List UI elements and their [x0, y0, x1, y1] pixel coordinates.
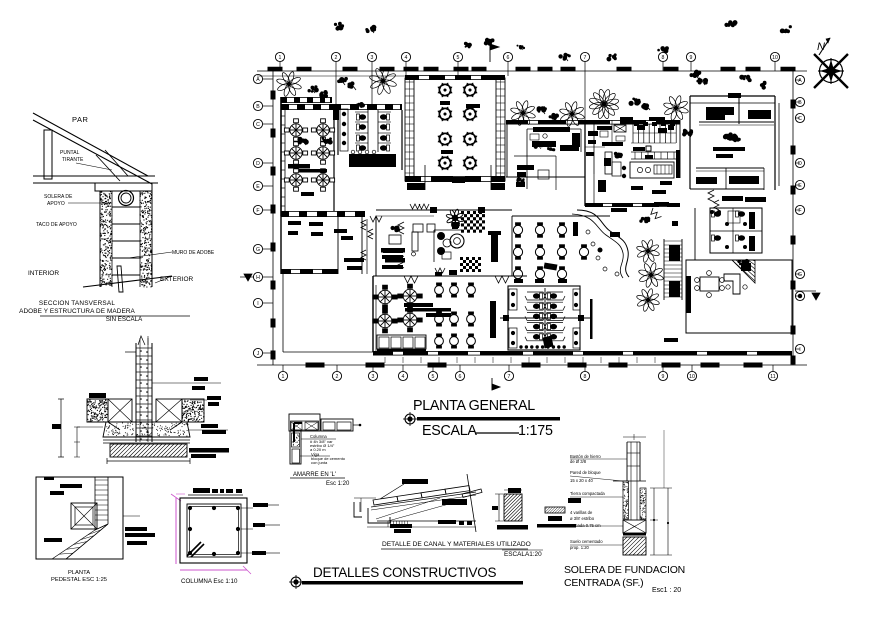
svg-text:11: 11 [770, 374, 775, 380]
pedestal top leader left [125, 351, 136, 353]
svg-text:3: 3 [371, 55, 374, 61]
svg-text:9: 9 [662, 374, 665, 380]
svg-text:C: C [256, 122, 260, 128]
columna inner square [187, 504, 241, 557]
pedestal base slab [103, 439, 190, 441]
columna outer square [180, 498, 247, 563]
svg-text:APOYO: APOYO [47, 201, 65, 207]
svg-text:5: 5 [432, 374, 435, 380]
svg-text:6: 6 [507, 55, 510, 61]
kitchen west lower office [514, 155, 556, 157]
property line right dashes [791, 100, 796, 109]
bathroom block B walls [337, 110, 339, 155]
svg-text:Suelo cementado: Suelo cementado [570, 539, 603, 544]
pedestal top-left label bars [89, 393, 106, 398]
svg-text:ESCALA: ESCALA [422, 423, 477, 439]
lounge top door W [410, 204, 420, 209]
svg-text:DETALLES CONSTRUCTIVOS: DETALLES CONSTRUCTIVOS [313, 565, 497, 580]
bathroom H side cells right [573, 289, 580, 310]
pedestal top leader right [152, 382, 221, 384]
main dining cross tables [373, 285, 397, 309]
canal black bars lower [390, 524, 412, 528]
solera wall hatched strips [623, 481, 629, 519]
svg-text:ø 3/8' estribo: ø 3/8' estribo [570, 516, 595, 521]
pedestal ground hatch left brick [105, 417, 106, 418]
svg-text:B: B [798, 100, 802, 106]
svg-text:10: 10 [772, 55, 778, 61]
svg-text:PLANTA: PLANTA [68, 570, 90, 576]
svg-text:PUNTAL: PUNTAL [60, 150, 80, 156]
planter wall ladder [663, 239, 665, 300]
svg-text:F: F [798, 208, 801, 214]
columna rebar dots [188, 506, 192, 510]
grid marker arrow right [812, 293, 820, 300]
canal right slope edge [467, 474, 476, 532]
corridor walls [361, 216, 363, 274]
canal right base line [537, 524, 576, 528]
bathroom H east wall [590, 299, 593, 339]
section detail: ground line [83, 276, 172, 287]
svg-text:G: G [798, 272, 802, 278]
section detail: top plate solera [95, 183, 152, 191]
reception checker floor lower [460, 257, 463, 260]
top-right room1 black mass [706, 107, 734, 115]
room A walls [281, 97, 332, 103]
bathroom H walls [508, 286, 580, 350]
planta pedestal top bars [60, 484, 82, 488]
property line left dashes [271, 91, 276, 100]
canal gutter channel [354, 502, 362, 517]
room C left wall hatched [405, 78, 414, 181]
svg-text:7: 7 [584, 55, 587, 61]
top-right hall plants [682, 129, 693, 137]
room C top wall [405, 75, 505, 80]
top-right lower rooms [696, 167, 764, 169]
svg-text:B: B [256, 104, 260, 110]
property line bottom [257, 364, 807, 366]
pedestal right leaders lower [190, 449, 228, 451]
solera bottom hatch [623, 537, 646, 555]
court plants top [510, 100, 536, 126]
pedestal footing concrete [103, 422, 190, 437]
bottom wall right segment [667, 351, 792, 356]
pedestal ground X panel left [108, 399, 132, 422]
canal section hatch block [504, 494, 522, 521]
pedestal right leaders middle [189, 429, 228, 431]
flag symbol top [489, 44, 491, 62]
title planta general underline bar [417, 417, 560, 421]
svg-text:TACO DE APOYO: TACO DE APOYO [36, 222, 77, 228]
planter flowers [636, 239, 660, 263]
service room walls below A [280, 216, 282, 274]
top-right block outer walls [690, 95, 775, 97]
kitchen west room walls [506, 120, 508, 177]
dining east black counter [490, 301, 496, 338]
room A tables [284, 119, 307, 141]
amarre top beam [289, 414, 320, 431]
svg-text:PLANTA GENERAL: PLANTA GENERAL [413, 398, 535, 414]
svg-text:I: I [257, 301, 258, 307]
columna magenta dims [175, 498, 177, 564]
pedestal ground hatch right brick [194, 411, 195, 412]
bathroom H sink dots [519, 345, 522, 348]
canal right wall piece hatch [545, 507, 565, 513]
lounge sofas [383, 249, 403, 253]
pedestal bottom hatch block [110, 444, 187, 457]
bathroom H side cells left [509, 289, 517, 310]
svg-text:A: A [256, 77, 260, 83]
office plant [738, 259, 750, 266]
reception column circle [450, 234, 464, 248]
main dining small tables [435, 283, 444, 297]
svg-text:1:175: 1:175 [518, 423, 553, 439]
pedestal bottom dim line [107, 460, 190, 462]
main dining top wall [373, 275, 527, 277]
kitchen door arcs [649, 208, 662, 221]
pedestal section column ladder [135, 343, 137, 442]
bar black marks [612, 232, 620, 236]
grid bubbles right column [795, 79, 800, 81]
room C serving bars [440, 101, 450, 105]
flag symbol bottom [491, 378, 493, 390]
section detail: rafter PAR [33, 113, 148, 176]
columna right labels [253, 503, 268, 507]
office side chairs [726, 285, 730, 289]
north compass star [821, 61, 841, 81]
svg-text:1: 1 [279, 55, 282, 61]
svg-text:SOLERA DE FUNDACION: SOLERA DE FUNDACION [564, 564, 685, 576]
east corridor wedge [544, 263, 557, 270]
canal right wall black bar [548, 516, 562, 521]
kitchen east wall piece [679, 120, 681, 178]
room C bottom wall center bar [452, 177, 465, 183]
bathroom B counter black [349, 154, 396, 167]
grid marker arrow left [244, 274, 252, 281]
title detalles bar [302, 581, 523, 585]
kitchen top wall [506, 120, 680, 125]
solera box with X [623, 520, 646, 533]
kitchen equipment comb [632, 124, 634, 143]
svg-text:4: 4 [405, 55, 408, 61]
top-right bottom wall [690, 188, 764, 190]
section detail: king post [44, 130, 52, 179]
svg-text:H: H [256, 275, 260, 281]
reception bar T [488, 231, 501, 235]
planta pedestal outer square [36, 477, 123, 559]
main dining booths [377, 335, 426, 349]
svg-text:I: I [799, 347, 800, 353]
canal ground lines [377, 520, 476, 522]
canal left dim [354, 497, 376, 499]
bathroom B cells left [340, 109, 348, 151]
canal top-right plank [462, 489, 482, 497]
section detail: log round solera de apoyo [119, 191, 134, 206]
door marks right corridor [714, 200, 719, 210]
svg-text:ESCALA1:20: ESCALA1:20 [504, 551, 542, 558]
main dining left wall [372, 276, 374, 352]
pedestal ground X panel right [156, 399, 182, 422]
amarre vertical arm [290, 431, 301, 464]
svg-text:D: D [798, 161, 802, 167]
svg-text:Tierra compactada: Tierra compactada [570, 491, 605, 496]
canal right black bar [442, 499, 467, 505]
grid bubble left corner bottom [253, 348, 262, 357]
pedestal right label bars upper [207, 396, 221, 400]
lounge small tables [413, 224, 423, 232]
svg-text:Esc1 : 20: Esc1 : 20 [652, 587, 681, 594]
solera column top [626, 442, 628, 481]
section detail: adobe wall courses [112, 206, 140, 208]
canal comb ticks [387, 521, 389, 527]
solera top line [613, 480, 646, 482]
north compass [820, 60, 843, 83]
amarre right arm [321, 419, 353, 431]
planting strip above room A [276, 71, 302, 97]
planta pedestal ladder band [94, 477, 96, 530]
svg-text:J: J [257, 351, 260, 357]
bathroom H center corridor line [500, 317, 592, 319]
bar stools [586, 230, 590, 234]
svg-text:7: 7 [508, 374, 511, 380]
kitchen range block [630, 162, 674, 178]
kitchen west desks [533, 127, 570, 132]
svg-text:8: 8 [662, 55, 665, 61]
office conference table [700, 277, 719, 291]
kitchen skylight box [614, 125, 626, 132]
amarre L rebar [294, 423, 302, 442]
amarre leader 2 [300, 455, 330, 457]
svg-text:10: 10 [689, 374, 695, 380]
office L desk [724, 274, 740, 294]
svg-text:DETALLE DE CANAL Y MATERIALES: DETALLE DE CANAL Y MATERIALES UTILIZADO [382, 541, 531, 548]
svg-text:4: 4 [402, 374, 405, 380]
svg-text:SIN ESCALA: SIN ESCALA [106, 316, 143, 323]
svg-text:3: 3 [372, 374, 375, 380]
planta pedestal inner square with X [71, 503, 97, 529]
kitchen bottom wall [585, 203, 680, 207]
svg-text:8: 8 [584, 374, 587, 380]
service room desks [288, 221, 301, 225]
svg-text:C: C [798, 116, 802, 122]
svg-text:Esc 1:20: Esc 1:20 [326, 481, 350, 487]
kitchen divider vertical [584, 120, 586, 206]
svg-text:2: 2 [336, 374, 339, 380]
amarre top bricks [291, 422, 302, 430]
solera black bar label [568, 498, 581, 503]
room C bottom wall [405, 176, 505, 182]
svg-text:F: F [256, 208, 259, 214]
svg-text:6: 6 [459, 374, 462, 380]
property line right [792, 71, 794, 365]
reception dark flower table [446, 209, 464, 227]
lobby black bars [344, 258, 364, 262]
room A sideboard bars [288, 164, 310, 169]
room A left wall mullions [281, 115, 285, 117]
planta pedestal mid bar [44, 538, 62, 542]
canal top black bar [402, 479, 428, 484]
kitchen more equipment [637, 125, 645, 130]
svg-text:PAR: PAR [72, 115, 88, 124]
kitchen extra equipment [588, 131, 598, 136]
kitchen comb caps [634, 122, 639, 126]
solera dim lines right [653, 488, 655, 555]
svg-text:INTERIOR: INTERIOR [28, 270, 59, 277]
section detail: stake [117, 266, 123, 292]
bathroom H stall pairs [525, 292, 545, 300]
section detail: adobe wall hatched sides [108, 213, 109, 214]
pedestal ground slope lines [108, 422, 120, 430]
svg-text:E: E [798, 183, 802, 189]
NE bathroom fixtures [712, 211, 721, 217]
svg-text:5: 5 [457, 55, 460, 61]
kitchen counters [631, 151, 678, 153]
canal section base bar [497, 525, 528, 530]
svg-text:con junta: con junta [311, 460, 328, 465]
columna steel diagonal marks [187, 542, 201, 556]
svg-text:EXTERIOR: EXTERIOR [160, 276, 194, 283]
lounge door marks [435, 268, 445, 273]
reception black seats [437, 232, 445, 240]
bathroom H top dashes [514, 279, 523, 283]
svg-text:ADOBE Y ESTRUCTURA DE MADERA: ADOBE Y ESTRUCTURA DE MADERA [19, 308, 135, 315]
canal roof planks [373, 496, 398, 505]
reception pass room [433, 230, 435, 262]
reception checker floor upper [461, 211, 464, 214]
canal bars center [438, 520, 456, 524]
svg-text:CENTRADA (SF.): CENTRADA (SF.) [564, 577, 643, 589]
room C bottom corner blocks [407, 183, 425, 190]
bar area black blob [610, 232, 620, 237]
svg-text:MURO DE ADOBE: MURO DE ADOBE [172, 250, 215, 256]
property line left [272, 71, 274, 365]
svg-text:' a cada 0.75 cm: ' a cada 0.75 cm [570, 523, 601, 528]
east dining bench [573, 222, 578, 236]
corridor door marks [361, 220, 366, 230]
pedestal left dim line [60, 399, 62, 457]
bar counter S-curve [577, 210, 629, 277]
svg-text:2: 2 [335, 55, 338, 61]
svg-text:A: A [798, 78, 802, 84]
top-right door zigzag [708, 190, 714, 202]
planta pedestal right leaders [123, 515, 140, 517]
planta pedestal diagonal band [52, 524, 108, 559]
office left black wall bar [686, 276, 691, 313]
solera top dim [623, 436, 646, 438]
property line top [257, 70, 807, 72]
lobby door zigzag [370, 216, 382, 222]
east dining walls [511, 216, 513, 276]
lobby bench [412, 232, 418, 251]
east dining tables [513, 223, 522, 237]
NE bathroom walls [710, 208, 762, 253]
pedestal inner dim line [76, 427, 78, 457]
top-right hall bars [713, 147, 745, 151]
pedestal column tip [138, 336, 145, 345]
svg-text:15 x 20 x 40: 15 x 20 x 40 [570, 478, 593, 483]
kitchen prep counters [597, 126, 612, 130]
bathroom B stalls [367, 110, 369, 152]
property line top dashes [268, 67, 283, 72]
property line bottom dashes [306, 363, 325, 368]
room C tables [438, 83, 453, 98]
parking ticks bottom [384, 357, 386, 363]
building bottom wall [373, 351, 667, 356]
room C right wall hatched [496, 78, 505, 181]
top-right rooms divider [738, 96, 740, 124]
main dining buffet bars [404, 303, 433, 307]
amarre leader 1 [301, 438, 336, 440]
lounge left wall [375, 216, 377, 276]
svg-text:9: 9 [690, 55, 693, 61]
dining top wall black squares [435, 272, 442, 277]
svg-text:TIRANTE: TIRANTE [62, 157, 84, 163]
room A plants [297, 137, 308, 145]
section detail: diagonal brace [105, 150, 128, 176]
svg-text:4 varillas de: 4 varillas de [570, 510, 593, 515]
svg-text:AMARRE EN 'L': AMARRE EN 'L' [293, 472, 336, 478]
svg-text:COLUMNA Esc 1:10: COLUMNA Esc 1:10 [181, 578, 238, 585]
svg-text:Pared de bloque: Pared de bloque [570, 470, 601, 475]
svg-text:SOLERA DE: SOLERA DE [44, 194, 73, 200]
section detail: tie beam [33, 175, 155, 177]
lounge top wall [376, 209, 512, 211]
office SE walls [686, 260, 792, 333]
grid bubbles top row [279, 62, 281, 71]
columna top bars [193, 488, 210, 493]
NE bathroom stall col [749, 212, 755, 229]
svg-text:E: E [256, 184, 260, 190]
svg-text:1: 1 [282, 374, 285, 380]
office corner stair [732, 260, 755, 283]
canal diag braces [376, 498, 440, 519]
canal roof under lines [371, 492, 476, 507]
dining black wedge [543, 336, 553, 348]
grid bubbles left column [263, 78, 273, 80]
svg-text:D: D [256, 161, 260, 167]
top-right room2 black bar [748, 110, 771, 119]
svg-text:prop. 1:20: prop. 1:20 [570, 545, 590, 550]
grid bubbles bottom row [282, 365, 284, 371]
svg-text:PEDESTAL ESC 1:25: PEDESTAL ESC 1:25 [51, 577, 107, 583]
svg-text:de Ø 3/8: de Ø 3/8 [570, 459, 587, 464]
main dining booth base band [377, 349, 426, 352]
kitchen mid dividers [631, 142, 676, 144]
svg-text:SECCION TANSVERSAL: SECCION TANSVERSAL [39, 300, 115, 307]
courtyard edge lines [282, 274, 284, 352]
svg-text:G: G [256, 247, 260, 253]
canal section dims [498, 494, 500, 521]
top-right lower black bars [722, 196, 743, 201]
